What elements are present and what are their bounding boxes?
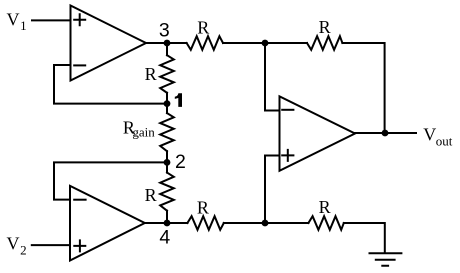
ground symbol bbox=[370, 253, 402, 265]
svg-text:V: V bbox=[7, 10, 20, 30]
node 1 junction dot bbox=[164, 100, 171, 107]
bottom junction dot bbox=[262, 220, 269, 227]
wire U3 output to Vout bbox=[355, 132, 416, 134]
wire V1 input lead bbox=[32, 19, 70, 21]
node 3 junction dot bbox=[164, 40, 171, 47]
wire to node 4 bbox=[166, 211, 168, 223]
svg-text:R: R bbox=[197, 197, 209, 217]
wire to node 2 bbox=[166, 151, 168, 172]
svg-text:V: V bbox=[423, 125, 436, 145]
svg-text:R: R bbox=[197, 17, 209, 37]
svg-text:gain: gain bbox=[132, 124, 155, 139]
svg-text:2: 2 bbox=[20, 243, 27, 258]
resistor R (bottom right, to ground) bbox=[308, 216, 343, 230]
resistor R (feedback, top right) bbox=[307, 36, 342, 50]
wire U2 feedback: minus input left and up to node 2 bbox=[54, 162, 167, 199]
op-amp U1 (top) triangle bbox=[71, 6, 147, 81]
wire bottom junction segment bbox=[224, 222, 309, 224]
op-amp U3 (right) triangle bbox=[280, 96, 356, 171]
wire U3 noninverting input down to bottom junction bbox=[265, 156, 280, 224]
op-amp U2 (bottom) triangle bbox=[70, 186, 145, 261]
svg-text:R: R bbox=[145, 185, 157, 205]
op-amp U3 minus input pin marker bbox=[282, 109, 293, 111]
wire junction down to U3 inverting input bbox=[265, 43, 280, 111]
wire resistor to ground stem bbox=[344, 223, 385, 253]
op-amp U1 minus input pin marker bbox=[74, 64, 85, 66]
op-amp U3 plus input pin marker bbox=[282, 150, 293, 161]
svg-text:R: R bbox=[145, 64, 157, 84]
svg-text:3: 3 bbox=[159, 19, 170, 41]
resistor R (bottom, node 4 to bottom junction) bbox=[187, 216, 223, 230]
svg-text:V: V bbox=[7, 234, 20, 254]
resistor R (vertical, node 2 to node 4) bbox=[160, 173, 174, 211]
resistor R (vertical, node 3 to node 1) bbox=[160, 55, 174, 93]
svg-text:4: 4 bbox=[159, 226, 170, 248]
wire U2 output to node 4 lead bbox=[145, 222, 188, 224]
output junction dot bbox=[382, 130, 389, 137]
svg-text:R: R bbox=[319, 197, 331, 217]
wire V2 input lead bbox=[32, 244, 70, 246]
top summing junction dot bbox=[262, 40, 269, 47]
node 2 junction dot bbox=[164, 159, 171, 166]
label node 1 bbox=[175, 93, 182, 107]
wire to node 1 bbox=[166, 93, 168, 113]
wire node 3 to resistor chain top bbox=[166, 43, 168, 55]
wire node 3 resistor to top-right junction bbox=[223, 42, 307, 44]
wire U1 output to node 3 lead bbox=[146, 42, 187, 44]
wire feedback resistor to right vertical drop bbox=[342, 43, 384, 133]
resistor R (top, node 3 to summing node) bbox=[187, 36, 223, 50]
wire U1 feedback: minus input left and down to node 1 bbox=[54, 65, 167, 104]
resistor Rgain (node 1 to node 2) bbox=[160, 113, 174, 151]
svg-text:R: R bbox=[319, 17, 331, 37]
node 4 junction dot bbox=[164, 220, 171, 227]
op-amp U2 minus input pin marker bbox=[74, 199, 85, 201]
svg-text:out: out bbox=[436, 133, 453, 148]
svg-text:1: 1 bbox=[20, 18, 27, 33]
op-amp U1 plus input pin marker bbox=[74, 14, 85, 25]
svg-text:2: 2 bbox=[175, 151, 186, 173]
op-amp U2 plus input pin marker bbox=[74, 240, 85, 251]
